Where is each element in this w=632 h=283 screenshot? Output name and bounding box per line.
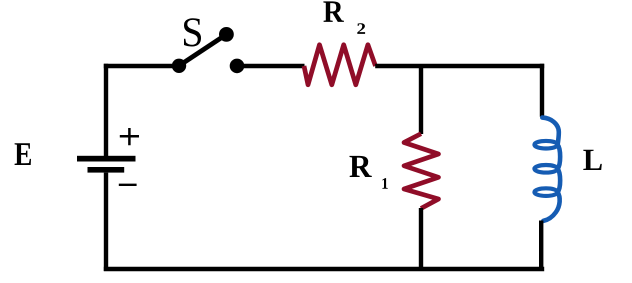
label R2 <box>323 1 344 22</box>
switch S lever <box>179 34 226 65</box>
inductor L connector 1 <box>558 145 561 169</box>
inductor L loop 1 <box>534 141 557 149</box>
battery E long plate <box>77 156 136 162</box>
switch right contact dot <box>230 59 245 74</box>
resistor R1 zigzag <box>404 134 439 209</box>
label R1 subscript 1 <box>382 178 387 189</box>
wire right vertical upper <box>540 64 544 117</box>
wire left vertical lower <box>104 173 108 271</box>
label L <box>583 150 602 170</box>
inductor L coil entry arc <box>542 118 559 145</box>
inductor L loop 2 <box>534 165 557 173</box>
switch lever tip dot <box>219 27 234 42</box>
inductor L loop 3 <box>534 188 557 196</box>
wire middle branch upper <box>419 66 423 134</box>
battery plus sign <box>120 128 139 145</box>
wire left vertical upper <box>104 64 108 156</box>
label S <box>184 18 201 46</box>
wire middle branch lower <box>419 208 423 271</box>
wire bottom horizontal <box>104 267 544 271</box>
resistor R2 zigzag <box>304 45 376 85</box>
wire R2 to top-right corner <box>375 64 544 68</box>
battery E short plate <box>88 167 125 173</box>
wire right vertical lower <box>539 221 543 272</box>
battery minus sign <box>119 184 137 186</box>
inductor L exit arc <box>543 192 559 221</box>
label E <box>15 143 31 165</box>
switch left contact dot <box>172 59 186 73</box>
inductor L connector 2 <box>558 169 561 192</box>
label R2 subscript 2 <box>357 23 365 34</box>
wire switch to R2 <box>237 64 305 68</box>
wire top-left horizontal <box>104 64 180 68</box>
label R1 <box>350 156 372 177</box>
